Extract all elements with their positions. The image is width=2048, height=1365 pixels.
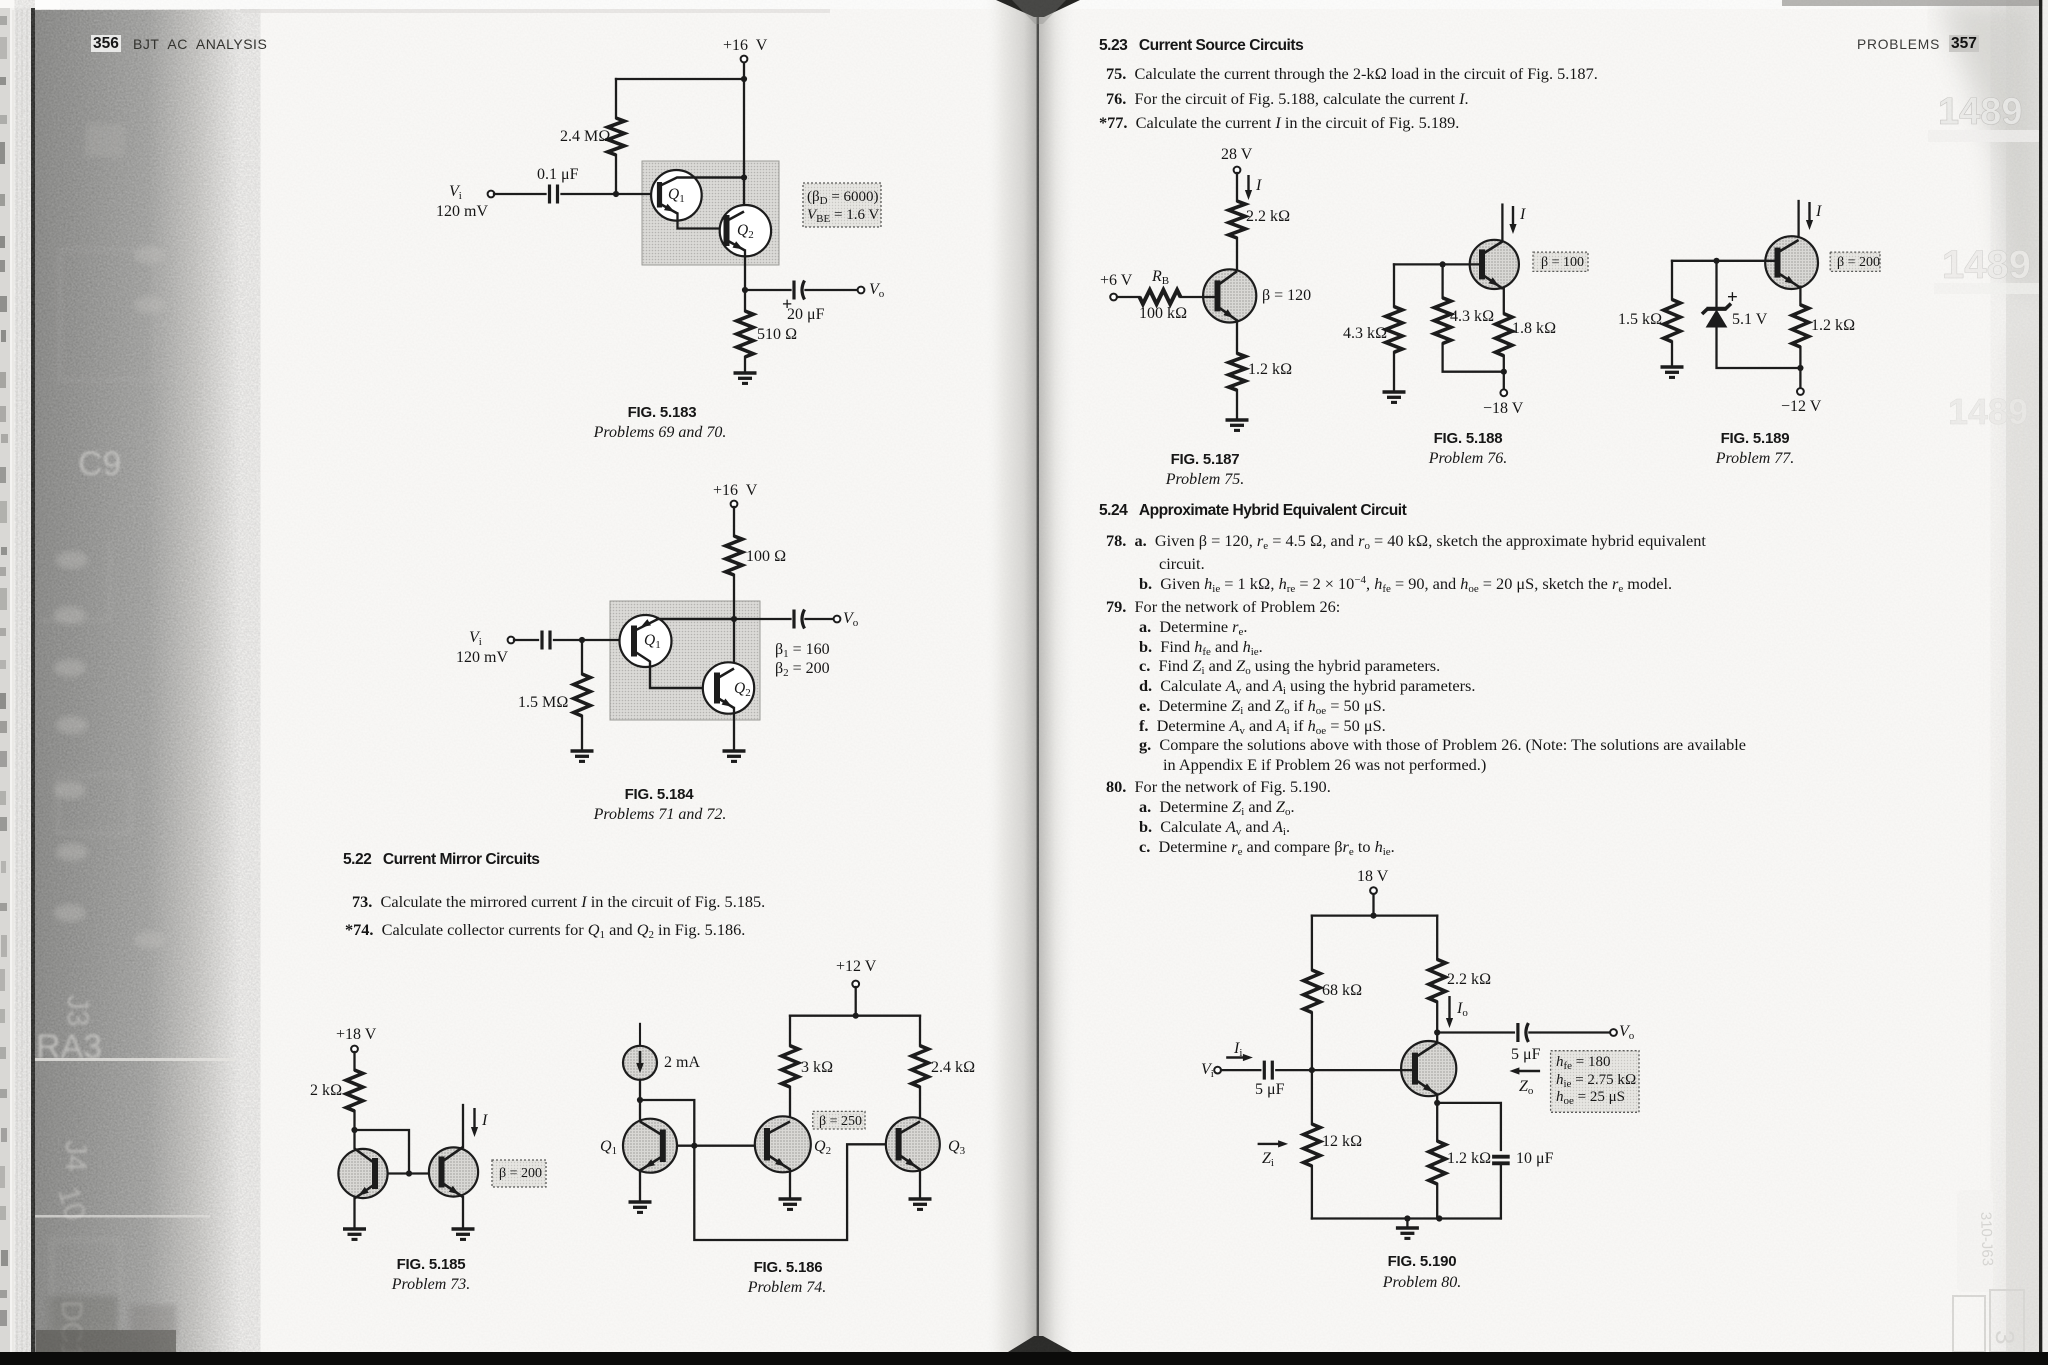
scanned film strip background xyxy=(0,8,36,1365)
junction Q1 col node xyxy=(637,1097,643,1103)
resistor 2.2 kohm xyxy=(1429,959,1446,1002)
feedback pair shaded box xyxy=(610,601,760,720)
terminal +16 V xyxy=(731,501,738,508)
FIG 5.184 feedback pair circuit xyxy=(508,501,841,762)
junction base node xyxy=(1309,1067,1315,1073)
wire left emitter to ground xyxy=(353,1199,355,1230)
wire cap to Vo xyxy=(1529,1031,1610,1033)
wire 1.5k to ground xyxy=(1671,342,1673,367)
junction zener node xyxy=(1713,258,1719,264)
ground xyxy=(452,1229,475,1239)
wire to output cap xyxy=(745,289,791,291)
wire RB to base xyxy=(1181,296,1218,298)
terminal +6 V xyxy=(1110,294,1117,301)
wire left to 1.5k xyxy=(1671,261,1673,300)
wire 2.4k to Q3 collector xyxy=(919,1087,921,1122)
bottom scan bar xyxy=(0,1352,2048,1365)
right page edge artifacts xyxy=(2006,0,2040,1352)
zener diode 5.1 V xyxy=(1702,304,1731,327)
wire cap to Q1 base xyxy=(562,193,660,195)
wire emitter to cap branch xyxy=(1437,1103,1501,1150)
transistor Q1 xyxy=(651,170,744,221)
ground xyxy=(343,1229,366,1239)
transistor Q2 xyxy=(703,662,754,713)
transistor beta=120 xyxy=(1203,269,1256,322)
FIG 5.183 Darlington amplifier circuit xyxy=(488,56,881,384)
wire right collector stub xyxy=(462,1105,464,1147)
wire emitter down xyxy=(1436,1095,1438,1141)
wire Q1 emitter to Q2 base xyxy=(678,214,725,229)
resistor 1.2 kohm xyxy=(1229,353,1246,390)
capacitor 10 uF xyxy=(1492,1157,1510,1164)
FIG 5.188 current source circuit 2 xyxy=(1383,205,1589,403)
wire to zener xyxy=(1715,261,1717,307)
wire +16V down xyxy=(733,507,735,536)
transistor xyxy=(1401,1041,1456,1096)
wire Vi to cap xyxy=(494,193,546,195)
resistor 1.8 kohm xyxy=(1496,314,1513,356)
resistor 4.3 kohm left xyxy=(1386,307,1403,353)
FIG 5.185 current mirror circuit xyxy=(338,1046,546,1240)
wire left to 4.3k xyxy=(1393,264,1395,306)
wire collector stub xyxy=(1797,201,1799,240)
resistor 2.2 kohm xyxy=(1229,201,1246,238)
FIG 5.189 zener current source circuit xyxy=(1661,201,1881,395)
junction base rail xyxy=(1440,261,1446,267)
wire 1.2k down xyxy=(1799,347,1801,388)
current arrow I xyxy=(471,1108,478,1137)
terminal Vi xyxy=(1214,1067,1221,1074)
transistor beta=100 xyxy=(1470,240,1519,289)
book gutter shadow xyxy=(982,0,1038,1352)
resistor 1.5 kohm xyxy=(1664,300,1681,342)
junction output node xyxy=(742,287,748,293)
transistor Q2 xyxy=(720,205,771,256)
wire cap to Vo xyxy=(806,618,835,620)
transistor Q1 (mirrored) xyxy=(623,1119,677,1173)
wire base to base xyxy=(377,1172,442,1174)
wire source to Q1 collector xyxy=(639,1080,641,1122)
wire 12k to bottom rail xyxy=(1311,1166,1313,1219)
wire Vi to cap xyxy=(1221,1069,1260,1071)
wire to output cap xyxy=(1437,1031,1514,1033)
junction -12V node xyxy=(1797,365,1803,371)
wire right emitter to ground xyxy=(462,1197,464,1229)
ground xyxy=(629,1202,652,1212)
wire rail to 2.2k xyxy=(1436,916,1438,960)
capacitor 0.1 uF xyxy=(550,185,558,204)
terminal Vo xyxy=(1610,1029,1617,1036)
resistor 12 kohm xyxy=(1304,1124,1321,1166)
wire cap to bottom rail xyxy=(1500,1163,1502,1218)
transistor Q2 xyxy=(755,1116,811,1172)
wire rail to 2.4k xyxy=(919,1016,921,1046)
Darlington package shaded box xyxy=(642,161,779,265)
wire 68k to 12k xyxy=(1311,1013,1313,1125)
resistor 2 kohm xyxy=(346,1070,363,1111)
wire 2k to Q collector xyxy=(353,1111,355,1148)
wire Q1 base to Q2 base xyxy=(665,1145,767,1147)
wire 2.4M top xyxy=(615,79,617,118)
capacitor 20 uF xyxy=(794,281,805,300)
wire to ground xyxy=(1406,1219,1408,1229)
terminal +18 V xyxy=(351,1046,358,1053)
junction top rail xyxy=(1370,913,1376,919)
wire +6V to RB xyxy=(1117,296,1140,298)
ground xyxy=(909,1199,932,1209)
ground xyxy=(734,373,757,383)
wire emitter to 1.2k xyxy=(1799,287,1801,305)
wire 1.8k down xyxy=(1503,356,1505,389)
junction bases xyxy=(691,1143,697,1149)
ground xyxy=(779,1199,802,1209)
wire Q1 emitter to ground xyxy=(639,1171,641,1203)
wire mid bottom L xyxy=(1443,344,1504,372)
terminal 28 V xyxy=(1234,167,1241,174)
wire 3k to Q2 collector xyxy=(789,1087,791,1122)
junction supply rail xyxy=(853,1013,859,1019)
FIG 5.186 triple current mirror circuit xyxy=(623,981,940,1240)
transistor Q right xyxy=(429,1147,478,1197)
wire +18V down xyxy=(353,1052,355,1070)
wire cap to Vo xyxy=(806,289,859,291)
wire rail to 68k xyxy=(1311,916,1313,970)
wire 18V down xyxy=(1372,894,1374,916)
current source 2 mA xyxy=(623,1023,657,1080)
FIG 5.187 current source circuit xyxy=(1110,167,1256,431)
wire down to 1.5M xyxy=(581,640,583,674)
wire to ground xyxy=(744,357,746,373)
wire cap to base xyxy=(1276,1069,1415,1071)
resistor RB 100 kohm xyxy=(1140,290,1181,304)
arrow Zi xyxy=(1258,1140,1289,1147)
wire 100ohm to Q2 collector xyxy=(733,575,735,667)
junction emitter node xyxy=(1434,1100,1440,1106)
beta box xyxy=(813,1111,865,1129)
arrow Ii xyxy=(1226,1054,1253,1061)
wire Vi to cap xyxy=(514,639,538,641)
wire mirror loop to Q3 base xyxy=(640,1100,899,1240)
wire cap to Q1 base xyxy=(554,639,634,641)
wire 1.2k to bottom rail xyxy=(1436,1184,1438,1219)
beta box xyxy=(1533,252,1588,271)
resistor 100 ohm xyxy=(726,536,743,575)
junction Q1 collector to rail xyxy=(741,174,747,180)
resistor 2.4 kohm xyxy=(912,1046,929,1087)
current arrow I xyxy=(1509,206,1516,234)
current arrow I xyxy=(1806,202,1813,230)
capacitor 5 uF input xyxy=(1264,1061,1272,1080)
wire base rail xyxy=(1394,263,1482,265)
wire 1.2k to ground xyxy=(1236,390,1238,420)
ground xyxy=(1383,392,1406,402)
transistor beta=200 xyxy=(1765,236,1818,289)
wire node to base rail xyxy=(355,1130,410,1174)
ground xyxy=(723,751,746,761)
capacitor input xyxy=(542,631,550,650)
transistor Q1 (pnp) xyxy=(620,615,735,688)
current arrow Io xyxy=(1446,996,1453,1028)
beta box xyxy=(1830,252,1880,271)
junction bases xyxy=(406,1170,412,1176)
resistor 3 kohm xyxy=(782,1046,799,1087)
wire 1.5M to ground xyxy=(581,716,583,751)
arrow Zo xyxy=(1509,1067,1540,1074)
terminal -18 V xyxy=(1500,389,1507,396)
resistor 1.2 kohm xyxy=(1429,1141,1446,1184)
wire zener to node L xyxy=(1717,327,1801,368)
wire Q2 emitter to ground xyxy=(733,708,735,751)
terminal Vi xyxy=(508,637,515,644)
capacitor 5 uF output xyxy=(1518,1023,1529,1042)
wire supply rail xyxy=(790,1015,920,1017)
ground xyxy=(1661,367,1684,377)
wire base rail xyxy=(1672,260,1778,262)
terminal Vo xyxy=(834,616,841,623)
wire Q2 emitter down xyxy=(744,251,746,312)
wire rail to 3k xyxy=(789,1016,791,1046)
terminal Vo xyxy=(858,287,865,294)
wire mid to 4.3k xyxy=(1441,264,1443,297)
terminal Vi xyxy=(488,191,495,198)
resistor 4.3 kohm middle xyxy=(1434,298,1451,344)
wire emitter to 1.2k xyxy=(1236,321,1238,354)
note box betaD VBE xyxy=(803,183,881,227)
junction 1.2k bottom xyxy=(1436,1215,1442,1221)
junction mirror node xyxy=(351,1127,357,1133)
junction output node xyxy=(1434,1029,1440,1035)
terminal +12 V xyxy=(852,981,859,988)
junction -18V node xyxy=(1501,369,1507,375)
wire +12V down xyxy=(855,987,857,1016)
junction base node xyxy=(613,191,619,197)
wire +16V rail down xyxy=(743,62,745,212)
junction input node xyxy=(579,637,585,643)
resistor 510 ohm xyxy=(737,311,754,357)
current arrow I xyxy=(1245,175,1252,200)
resistor 1.5 Mohm xyxy=(574,674,591,716)
node Vcc rail xyxy=(741,76,747,82)
wire top rail to 2.4M xyxy=(616,78,744,80)
wire 28V down xyxy=(1236,173,1238,201)
ground xyxy=(571,751,594,761)
wire 2.2k to collector xyxy=(1236,238,1238,271)
transistor Q3 xyxy=(886,1117,940,1171)
resistor 1.2 kohm xyxy=(1792,305,1809,347)
ground xyxy=(1396,1228,1419,1238)
resistor 2.4 Mohm xyxy=(608,118,625,155)
wire 2.4M bottom xyxy=(615,155,617,194)
terminal -12 V xyxy=(1797,388,1804,395)
h-parameter box xyxy=(1551,1051,1639,1113)
transistor Q left (diode-connected) xyxy=(338,1149,387,1199)
wire Q2 emitter to ground xyxy=(789,1170,791,1200)
wire Q3 emitter to ground xyxy=(919,1170,921,1200)
wire 2.2k to collector xyxy=(1436,1002,1438,1043)
wire 4.3k to ground xyxy=(1393,352,1395,392)
junction ground tap xyxy=(1404,1215,1410,1221)
ground xyxy=(1226,420,1249,430)
wire emitter to 1.8k xyxy=(1502,288,1503,313)
terminal 18 V xyxy=(1370,887,1377,894)
wire node to output cap xyxy=(734,618,791,620)
wire top rail xyxy=(1312,914,1437,916)
beta box xyxy=(492,1160,546,1187)
wire bottom rail xyxy=(1312,1217,1501,1219)
resistor 68 kohm xyxy=(1304,970,1321,1013)
wire collector stub xyxy=(1501,205,1503,242)
junction output node xyxy=(731,616,737,622)
FIG 5.190 hybrid-parameter amplifier circuit xyxy=(1214,887,1639,1238)
terminal +16 V xyxy=(741,56,748,63)
capacitor output xyxy=(794,610,805,629)
